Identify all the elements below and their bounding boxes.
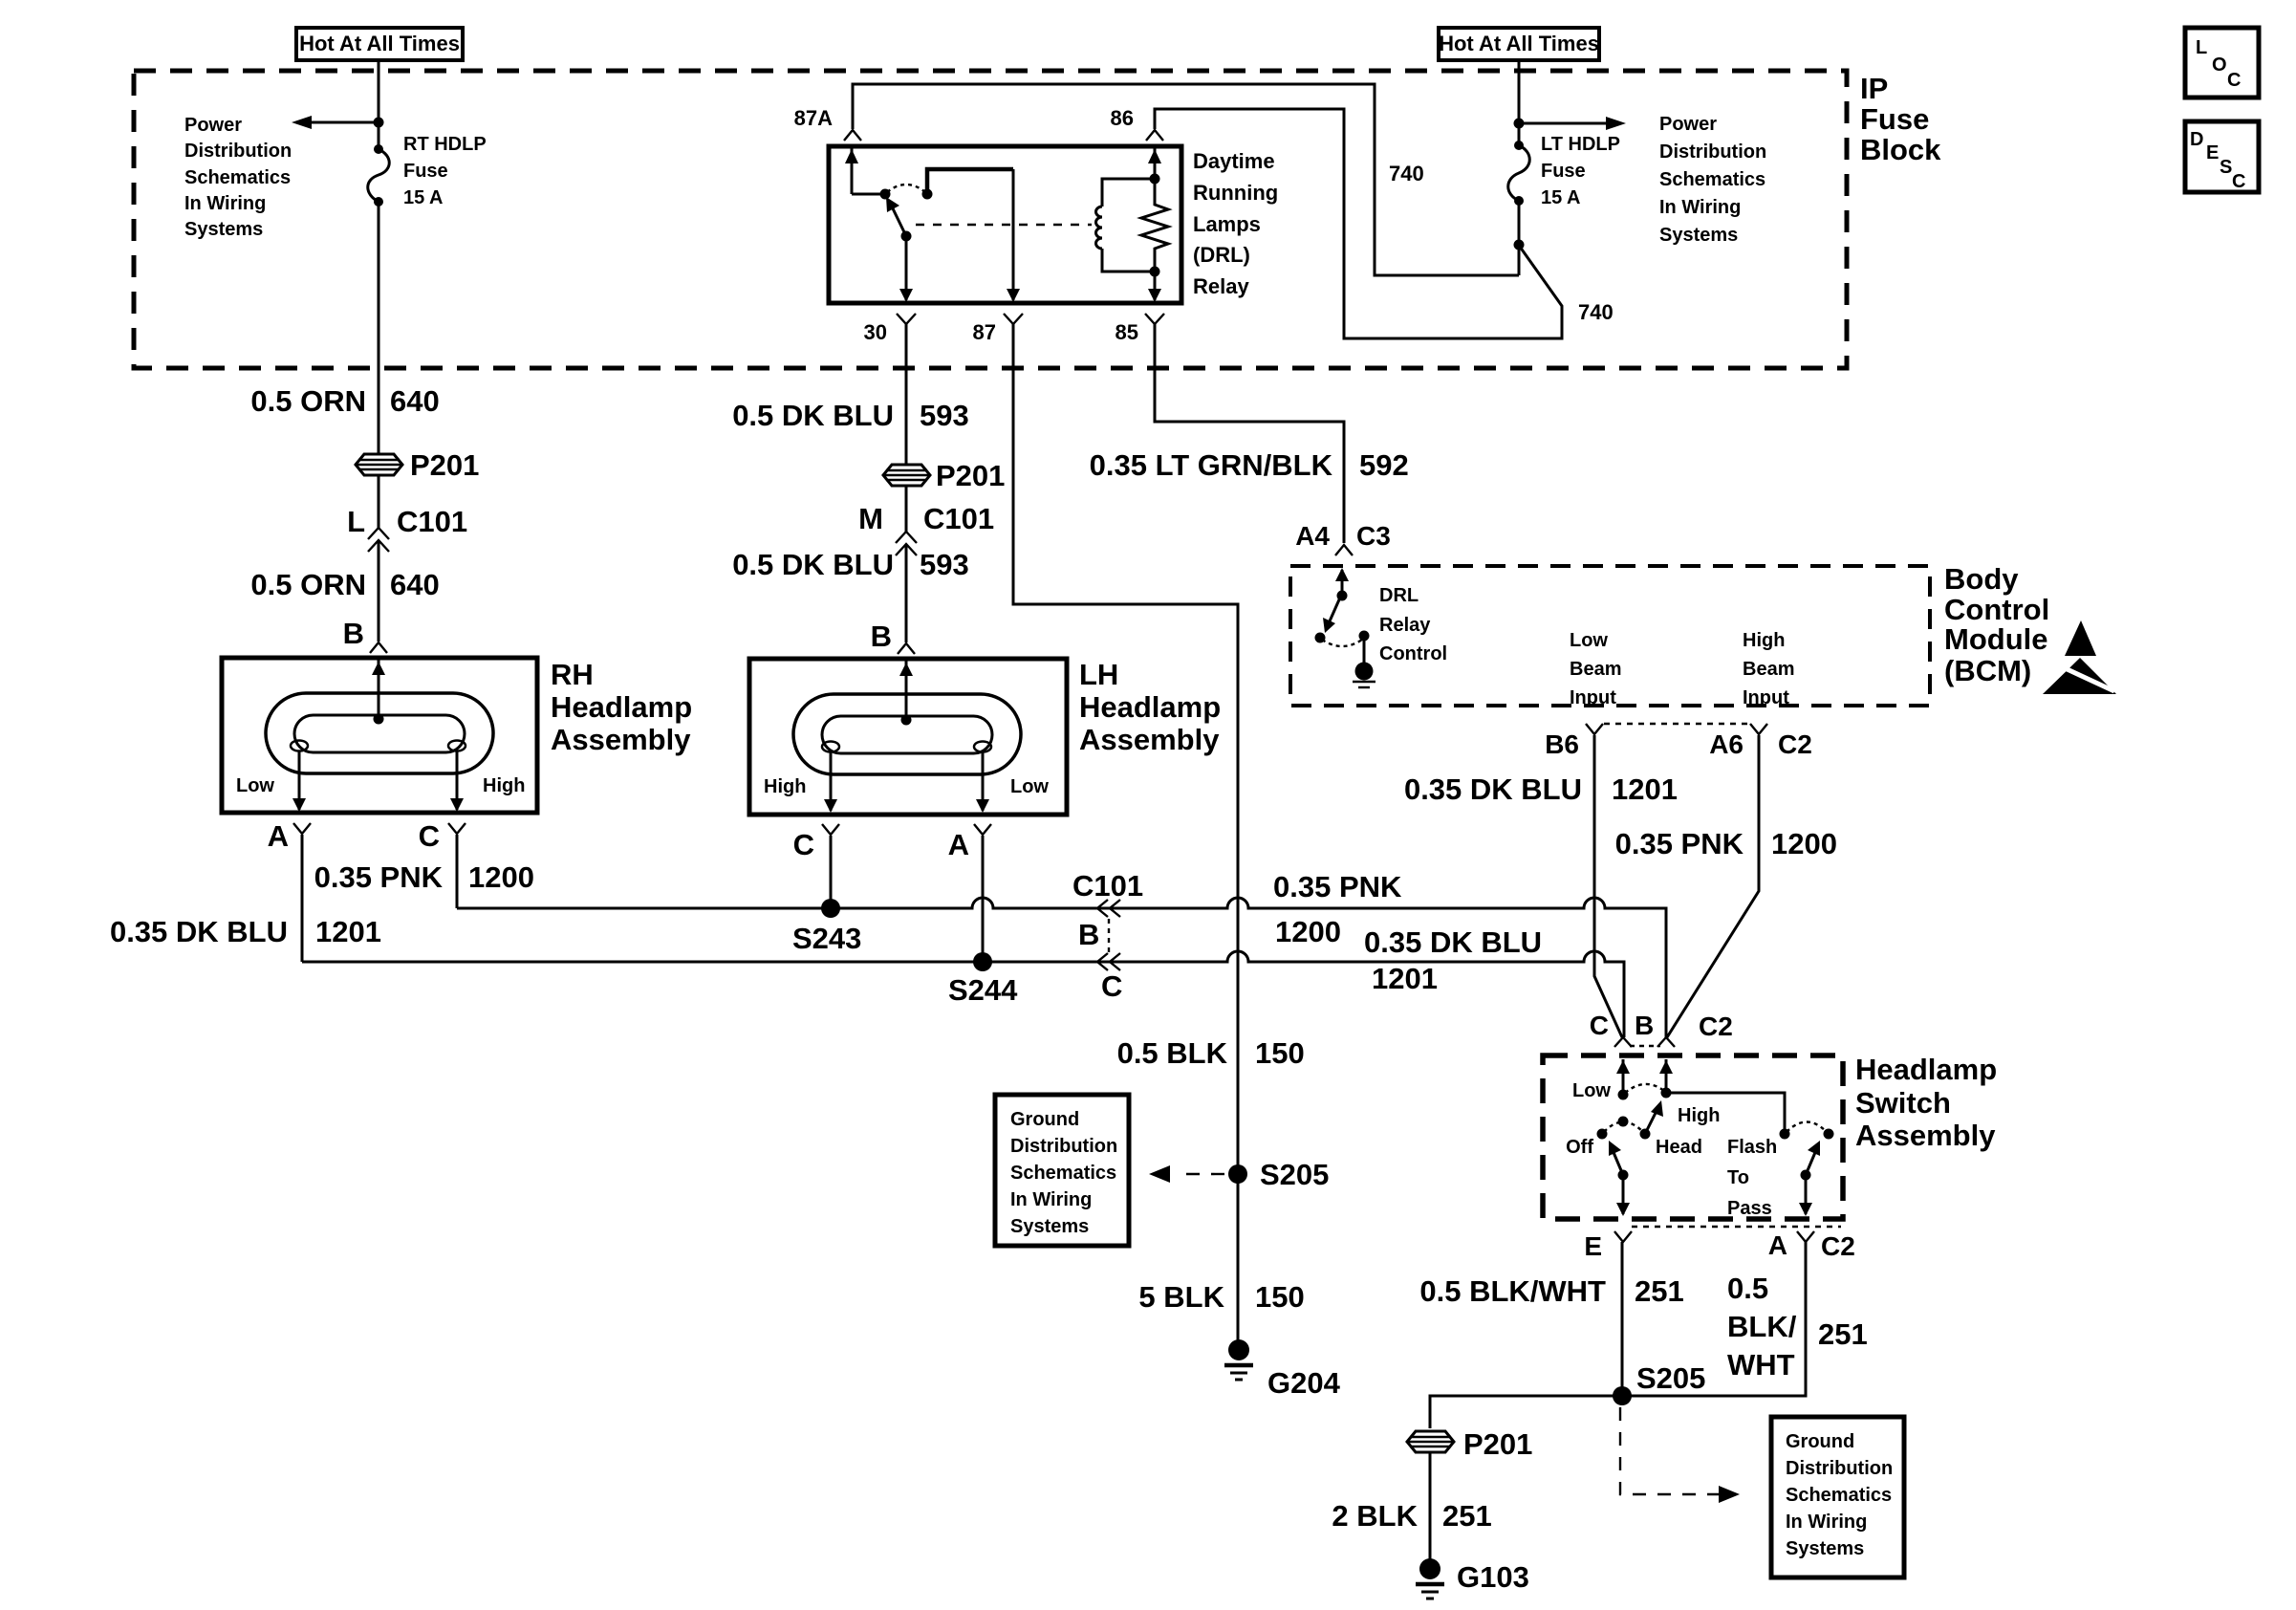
connector P201 (bottom) <box>1407 1427 1532 1461</box>
svg-text:87A: 87A <box>794 106 833 130</box>
svg-text:Schematics: Schematics <box>1659 169 1765 190</box>
svg-text:Hot At All Times: Hot At All Times <box>1439 32 1599 55</box>
svg-text:Low: Low <box>236 775 274 796</box>
svg-text:Ground: Ground <box>1786 1431 1854 1452</box>
svg-text:Headlamp: Headlamp <box>551 690 692 724</box>
svg-text:0.5: 0.5 <box>1727 1272 1768 1305</box>
svg-text:Systems: Systems <box>1659 225 1738 246</box>
svg-text:0.35 DK BLU: 0.35 DK BLU <box>110 915 288 948</box>
connector C101 dashed boundary <box>1108 919 1110 952</box>
svg-text:DRL: DRL <box>1379 585 1419 606</box>
wire: 30 to P201 (0.5 DK BLU 593) <box>905 324 908 533</box>
svg-text:640: 640 <box>390 568 440 601</box>
svg-text:Fuse: Fuse <box>1860 102 1929 136</box>
svg-text:Module: Module <box>1944 622 2048 656</box>
svg-text:Systems: Systems <box>184 219 263 240</box>
svg-text:P201: P201 <box>410 448 479 482</box>
connector C101 pin M pass-through <box>858 502 994 555</box>
svg-text:1201: 1201 <box>315 915 381 948</box>
wire: LT fuse output node <box>1518 201 1521 275</box>
svg-text:251: 251 <box>1818 1317 1868 1351</box>
connector C101 pin C chevrons <box>1097 953 1122 1003</box>
wire: S205 to P201 <box>1430 1396 1622 1428</box>
svg-text:C101: C101 <box>1072 869 1143 903</box>
svg-text:C2: C2 <box>1821 1231 1855 1261</box>
relay internal: dashed link to coil <box>916 224 1092 226</box>
svg-text:740: 740 <box>1578 300 1614 324</box>
wire: P201 to G103 (2 BLK 251) <box>1429 1452 1432 1561</box>
svg-text:C: C <box>1590 1011 1609 1040</box>
svg-text:High: High <box>1678 1105 1720 1126</box>
svg-text:Low: Low <box>1572 1080 1611 1101</box>
svg-text:C: C <box>793 828 814 861</box>
svg-text:G103: G103 <box>1457 1560 1529 1594</box>
svg-text:Off: Off <box>1566 1137 1593 1158</box>
svg-text:Hot At All Times: Hot At All Times <box>299 32 460 55</box>
svg-text:S205: S205 <box>1260 1158 1329 1191</box>
svg-text:150: 150 <box>1255 1280 1305 1314</box>
connector C101 pin B chevrons <box>1072 869 1143 951</box>
svg-text:Schematics: Schematics <box>1010 1163 1116 1184</box>
svg-text:C: C <box>1101 969 1122 1003</box>
svg-text:P201: P201 <box>936 459 1005 492</box>
node: RT feed junction <box>374 118 384 128</box>
svg-text:Assembly: Assembly <box>551 723 691 756</box>
svg-text:Input: Input <box>1570 687 1616 708</box>
svg-text:251: 251 <box>1635 1274 1684 1308</box>
svg-text:Low: Low <box>1570 630 1608 651</box>
svg-text:Distribution: Distribution <box>1010 1136 1117 1157</box>
ESD symbol <box>2043 620 2116 694</box>
relay internal: 85 exit arrow <box>1148 272 1161 302</box>
relay internal: switch dashed throw arc <box>887 185 925 192</box>
svg-text:C: C <box>2227 70 2241 91</box>
fuse RT HDLP 15A <box>368 134 487 208</box>
wire: A to S205 (0.5 BLK/WHT 251) <box>1622 1242 1806 1396</box>
svg-text:To: To <box>1727 1167 1749 1188</box>
svg-text:Flash: Flash <box>1727 1137 1777 1158</box>
svg-text:0.5 ORN: 0.5 ORN <box>250 568 366 601</box>
svg-text:O: O <box>2212 54 2227 76</box>
splice S205 (ground wire) <box>1228 1164 1247 1184</box>
svg-text:Relay: Relay <box>1193 274 1249 298</box>
svg-text:740: 740 <box>1389 162 1424 185</box>
svg-text:0.5 BLK/WHT: 0.5 BLK/WHT <box>1419 1274 1606 1308</box>
svg-text:D: D <box>2190 129 2203 150</box>
svg-text:593: 593 <box>920 399 969 432</box>
svg-text:In Wiring: In Wiring <box>184 193 266 214</box>
svg-text:Running: Running <box>1193 181 1278 205</box>
svg-text:640: 640 <box>390 384 440 418</box>
switch internal: flash arm to A <box>1799 1141 1820 1216</box>
wire: A6 to switch B (0.35 PNK 1200) <box>1667 735 1759 1037</box>
svg-text:86: 86 <box>1111 106 1134 130</box>
wire: 86 to LT fuse node (740) <box>1155 109 1562 338</box>
svg-text:B: B <box>871 620 892 653</box>
LH bulb symbol <box>764 661 1049 813</box>
dashed arrow S205 to Ground Distribution box (right) <box>1620 1407 1740 1503</box>
Ground Distribution box (right) <box>1771 1417 1904 1577</box>
svg-text:Control: Control <box>1379 643 1447 664</box>
connector C2 dashed tie (switch top) <box>1630 1045 1660 1047</box>
svg-text:Block: Block <box>1860 133 1941 166</box>
svg-text:251: 251 <box>1442 1499 1492 1533</box>
svg-text:1201: 1201 <box>1612 772 1678 806</box>
wire: 0.5 ORN 640 (C101 to RH headlamp B) <box>378 541 380 642</box>
connector P201 (left) <box>356 448 479 482</box>
svg-text:E: E <box>1584 1231 1602 1261</box>
svg-text:Headlamp: Headlamp <box>1855 1053 1997 1086</box>
LOC box <box>2185 28 2259 98</box>
svg-text:Headlamp: Headlamp <box>1079 690 1221 724</box>
svg-text:Systems: Systems <box>1010 1216 1089 1237</box>
svg-text:Distribution: Distribution <box>1786 1458 1893 1479</box>
svg-text:15 A: 15 A <box>403 187 444 208</box>
svg-text:E: E <box>2206 142 2219 163</box>
svg-text:RT HDLP: RT HDLP <box>403 134 487 155</box>
svg-text:LH: LH <box>1079 658 1118 691</box>
svg-text:S244: S244 <box>948 973 1018 1007</box>
svg-text:C2: C2 <box>1699 1012 1733 1041</box>
switch internal: beam select arm <box>1645 1100 1663 1134</box>
svg-text:A: A <box>268 819 289 853</box>
fuse LT HDLP 15A <box>1508 134 1620 208</box>
bus wire: 0.35 DK BLU 1201 <box>302 951 1624 1037</box>
svg-text:1200: 1200 <box>468 860 534 894</box>
Ground Distribution box (left) <box>995 1095 1129 1246</box>
svg-text:Daytime: Daytime <box>1193 149 1275 173</box>
relay internal: resistor <box>1141 179 1168 272</box>
wire: E to S205 (0.5 BLK/WHT 251) <box>1621 1242 1624 1396</box>
connector C2 dashed tie (switch bottom) <box>1632 1226 1841 1228</box>
svg-text:B: B <box>1078 918 1099 951</box>
bus wire: 0.35 PNK 1200 <box>457 898 1666 1037</box>
svg-text:0.5 DK BLU: 0.5 DK BLU <box>732 399 894 432</box>
svg-text:1201: 1201 <box>1372 962 1438 995</box>
svg-text:A4: A4 <box>1295 521 1330 551</box>
svg-text:C101: C101 <box>923 502 994 535</box>
RH Headlamp Assembly <box>222 658 692 813</box>
svg-text:593: 593 <box>920 548 969 581</box>
svg-text:Control: Control <box>1944 593 2049 626</box>
svg-text:C3: C3 <box>1356 521 1391 551</box>
relay internal: 86 entry arrow <box>1148 148 1161 179</box>
DESC box <box>2185 121 2259 192</box>
Hot At All Times box (right) <box>1439 28 1599 60</box>
svg-text:C: C <box>2232 171 2245 192</box>
svg-text:Ground: Ground <box>1010 1109 1079 1130</box>
connector P201 (middle) <box>883 459 1005 492</box>
connector C101 pin L pass-through <box>347 505 467 552</box>
svg-text:2 BLK: 2 BLK <box>1332 1499 1418 1533</box>
svg-text:0.35 DK BLU: 0.35 DK BLU <box>1364 925 1542 959</box>
svg-text:Relay: Relay <box>1379 615 1431 636</box>
svg-text:S205: S205 <box>1636 1361 1705 1395</box>
svg-text:Distribution: Distribution <box>1659 141 1766 163</box>
svg-text:IP: IP <box>1860 72 1888 105</box>
splice S243 <box>821 899 840 918</box>
wire: LH C to S243 <box>830 836 833 908</box>
svg-text:0.35 PNK: 0.35 PNK <box>1615 827 1744 860</box>
svg-text:High: High <box>483 775 525 796</box>
switch internal: master arm to E <box>1609 1141 1630 1216</box>
svg-text:High: High <box>764 776 806 797</box>
wire: RH C to bus 1200 <box>456 835 459 908</box>
svg-text:Pass: Pass <box>1727 1198 1772 1219</box>
svg-text:150: 150 <box>1255 1036 1305 1070</box>
svg-text:In Wiring: In Wiring <box>1786 1512 1867 1533</box>
svg-text:Body: Body <box>1944 562 2019 596</box>
node: LT feed junction <box>1514 119 1525 129</box>
wire: LH A to S244 <box>982 836 985 962</box>
svg-text:L: L <box>2196 37 2207 58</box>
svg-text:WHT: WHT <box>1727 1348 1795 1382</box>
svg-text:0.35 PNK: 0.35 PNK <box>314 860 444 894</box>
svg-text:LT HDLP: LT HDLP <box>1541 134 1620 155</box>
svg-text:Low: Low <box>1010 776 1049 797</box>
ground G204 <box>1224 1339 1341 1400</box>
Hot At All Times box (left) <box>296 28 463 60</box>
dashed arrow to Ground Distribution box <box>1149 1165 1224 1183</box>
svg-text:1200: 1200 <box>1771 827 1837 860</box>
svg-text:0.5 DK BLU: 0.5 DK BLU <box>732 548 894 581</box>
svg-text:S: S <box>2220 157 2232 178</box>
svg-text:Assembly: Assembly <box>1855 1119 1996 1152</box>
svg-text:S243: S243 <box>792 922 861 955</box>
svg-text:592: 592 <box>1359 448 1409 482</box>
switch internal: dashed arc Low-High <box>1625 1084 1664 1093</box>
wire: battery feed to RT HDLP fuse <box>378 60 380 149</box>
wire: 85 to BCM A4 (0.35 LT GRN/BLK 592) <box>1155 324 1344 543</box>
svg-text:85: 85 <box>1116 320 1138 344</box>
BCM internal: DRL Relay Control switch <box>1315 568 1448 687</box>
wire: 87 to ground G204 (0.5 BLK 150) <box>1013 324 1238 1342</box>
ground G103 <box>1416 1558 1529 1599</box>
svg-text:C: C <box>419 819 440 853</box>
relay internal: 87A leg <box>845 148 891 200</box>
LH Headlamp Assembly <box>749 658 1221 815</box>
svg-text:C101: C101 <box>397 505 467 538</box>
svg-text:In Wiring: In Wiring <box>1010 1189 1092 1210</box>
svg-text:Power: Power <box>184 115 242 136</box>
svg-text:Systems: Systems <box>1786 1538 1864 1559</box>
wire: RH A to bus 1201 <box>301 835 304 962</box>
splice S244 <box>973 952 992 971</box>
switch internal: Off/Head contacts <box>1566 1117 1702 1159</box>
svg-text:Switch: Switch <box>1855 1086 1951 1120</box>
svg-text:Head: Head <box>1656 1137 1702 1158</box>
wire: 87A to LT fuse node (740) <box>853 84 1519 275</box>
relay internal: movable arm <box>886 197 913 302</box>
Headlamp Switch Assembly dashed box <box>1543 1055 1843 1219</box>
svg-text:Schematics: Schematics <box>184 167 291 188</box>
svg-text:A6: A6 <box>1709 729 1744 759</box>
svg-text:A: A <box>948 828 969 861</box>
svg-text:1200: 1200 <box>1275 915 1341 948</box>
splice S205 (switch grounds) <box>1613 1386 1632 1405</box>
svg-text:Beam: Beam <box>1570 659 1621 680</box>
svg-text:BLK/: BLK/ <box>1727 1310 1797 1343</box>
svg-text:M: M <box>858 502 883 535</box>
svg-text:P201: P201 <box>1463 1427 1532 1461</box>
svg-text:Power: Power <box>1659 114 1717 135</box>
svg-text:Input: Input <box>1743 687 1789 708</box>
wire: 0.5 ORN 640 (fuse to P201) <box>378 202 380 529</box>
svg-text:5 BLK: 5 BLK <box>1138 1280 1224 1314</box>
svg-text:0.35 PNK: 0.35 PNK <box>1273 870 1402 903</box>
svg-text:Beam: Beam <box>1743 659 1794 680</box>
svg-text:0.5 ORN: 0.5 ORN <box>250 384 366 418</box>
svg-text:(DRL): (DRL) <box>1193 243 1250 267</box>
svg-text:0.5 BLK: 0.5 BLK <box>1117 1036 1228 1070</box>
svg-text:B: B <box>1635 1011 1654 1040</box>
wire: B6 to switch C (0.35 DK BLU 1201) <box>1594 735 1622 1037</box>
DRL relay box <box>829 146 1181 303</box>
svg-text:Schematics: Schematics <box>1786 1485 1892 1506</box>
svg-text:A: A <box>1768 1230 1787 1260</box>
svg-text:87: 87 <box>973 320 996 344</box>
switch internal: C entry to Low contact <box>1572 1059 1630 1101</box>
svg-text:B6: B6 <box>1545 729 1579 759</box>
relay internal: coil <box>1096 174 1160 277</box>
wire: arrow to Power Distribution (right) <box>1519 122 1606 125</box>
svg-text:G204: G204 <box>1267 1366 1341 1400</box>
svg-text:B: B <box>343 617 364 650</box>
svg-text:RH: RH <box>551 658 594 691</box>
Body Control Module dashed box <box>1290 566 1930 706</box>
svg-text:0.35 LT GRN/BLK: 0.35 LT GRN/BLK <box>1090 448 1333 482</box>
switch internal: B entry to High contact <box>1659 1059 1720 1126</box>
svg-text:C2: C2 <box>1778 729 1812 759</box>
svg-text:L: L <box>347 505 365 538</box>
svg-text:0.35 DK BLU: 0.35 DK BLU <box>1404 772 1582 806</box>
svg-text:(BCM): (BCM) <box>1944 654 2031 687</box>
svg-text:Assembly: Assembly <box>1079 723 1220 756</box>
svg-text:In Wiring: In Wiring <box>1659 197 1741 218</box>
relay internal: 87 contact and leg <box>922 169 1021 302</box>
RH bulb symbol <box>236 660 525 812</box>
wire: C101 to LH headlamp B (0.5 DK BLU 593) <box>905 545 908 642</box>
svg-text:Distribution: Distribution <box>184 141 292 162</box>
wire: battery feed to LT HDLP fuse <box>1518 60 1521 145</box>
svg-text:High: High <box>1743 630 1785 651</box>
switch internal: High feed to Flash contact <box>1666 1093 1785 1134</box>
switch internal: Flash To Pass contacts <box>1727 1122 1834 1220</box>
connector C2 dashed tie (BCM) <box>1604 723 1750 725</box>
IP Fuse Block dashed boundary <box>134 71 1941 368</box>
svg-text:Lamps: Lamps <box>1193 212 1261 236</box>
svg-text:30: 30 <box>864 320 887 344</box>
svg-text:Fuse: Fuse <box>1541 161 1586 182</box>
wire: arrow to Power Distribution (left) <box>308 121 379 124</box>
svg-text:15 A: 15 A <box>1541 187 1581 208</box>
svg-text:Fuse: Fuse <box>403 161 448 182</box>
